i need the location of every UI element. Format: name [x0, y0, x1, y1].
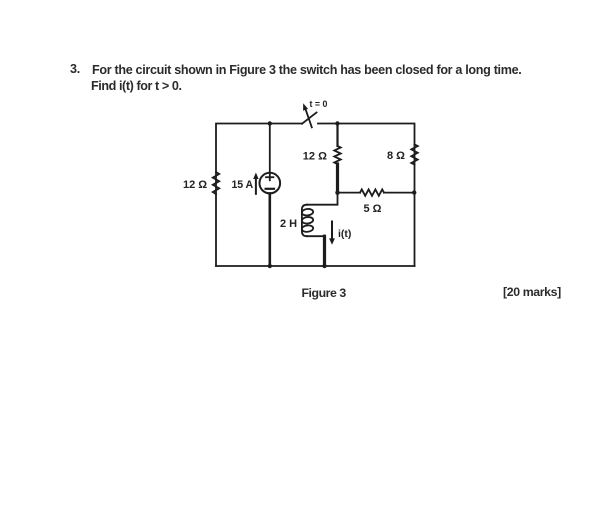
wire middle branch upper: [336, 124, 338, 147]
wire top rail left segment (top-left corner to switch): [216, 124, 302, 267]
wire source branch upper: [269, 124, 271, 173]
svg-text:12 Ω: 12 Ω: [303, 151, 327, 163]
resistor 8 ohm (on right rail): [411, 144, 417, 164]
marks label: [503, 285, 561, 299]
current source direction arrow: [255, 178, 257, 194]
node right rail/5-ohm junction: [412, 190, 416, 194]
svg-text:2 H: 2 H: [280, 218, 297, 230]
wire middle branch lower (bold): [336, 164, 339, 193]
wire elbow to inductor: [307, 193, 338, 205]
problem statement line 1: [70, 62, 80, 76]
svg-text:15 A: 15 A: [232, 179, 254, 191]
wire source branch lower: [268, 193, 271, 266]
svg-text:8 Ω: 8 Ω: [387, 150, 405, 162]
wire inductor bottom to rail (bold): [307, 235, 325, 237]
inductor 2 H coil: [302, 205, 307, 237]
figure caption: [302, 286, 346, 300]
svg-text:12 Ω: 12 Ω: [183, 179, 207, 191]
resistor 12 ohm middle: [334, 146, 340, 164]
resistor 12 ohm left (on left rail): [213, 172, 219, 194]
wire top rail right segment (switch to top-right corner): [318, 124, 415, 267]
svg-text:t = 0: t = 0: [310, 99, 328, 109]
svg-text:5 Ω: 5 Ω: [364, 203, 382, 215]
problem statement line 2: [91, 79, 182, 93]
wire 5 ohm branch left lead: [338, 192, 361, 194]
node middle/5-ohm junction: [335, 190, 339, 194]
node top of middle branch: [335, 121, 339, 125]
svg-text:i(t): i(t): [338, 228, 351, 240]
switch actuation arrow: [306, 109, 312, 127]
current arrow i(t): [331, 222, 333, 240]
node bottom of inductor branch: [322, 264, 326, 268]
resistor 5 ohm: [360, 189, 384, 195]
wire 5 ohm branch right lead: [384, 192, 415, 194]
node top of source branch: [268, 121, 272, 125]
node bottom of source branch: [268, 264, 272, 268]
wire bottom rail: [216, 265, 415, 267]
switch blade: [302, 113, 317, 124]
current source 15 A (circle with +/-): [260, 173, 281, 194]
